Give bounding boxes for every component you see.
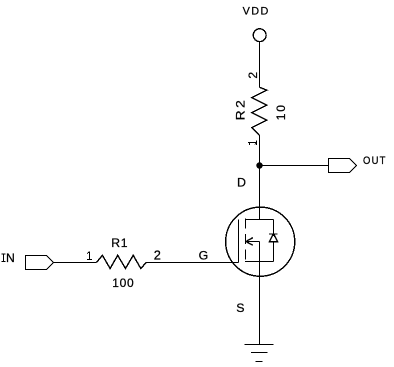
svg-text:N: N [6, 251, 15, 265]
svg-text:OUT: OUT [363, 155, 387, 167]
svg-text:VDD: VDD [243, 5, 270, 17]
svg-text:100: 100 [112, 276, 134, 290]
svg-text:R1: R1 [111, 236, 128, 250]
svg-text:D: D [237, 176, 246, 190]
svg-text:2: 2 [246, 72, 260, 79]
svg-text:2: 2 [154, 248, 161, 263]
svg-text:R2: R2 [234, 98, 248, 121]
svg-text:S: S [236, 301, 244, 315]
svg-text:G: G [199, 249, 209, 263]
svg-text:10: 10 [274, 103, 288, 120]
